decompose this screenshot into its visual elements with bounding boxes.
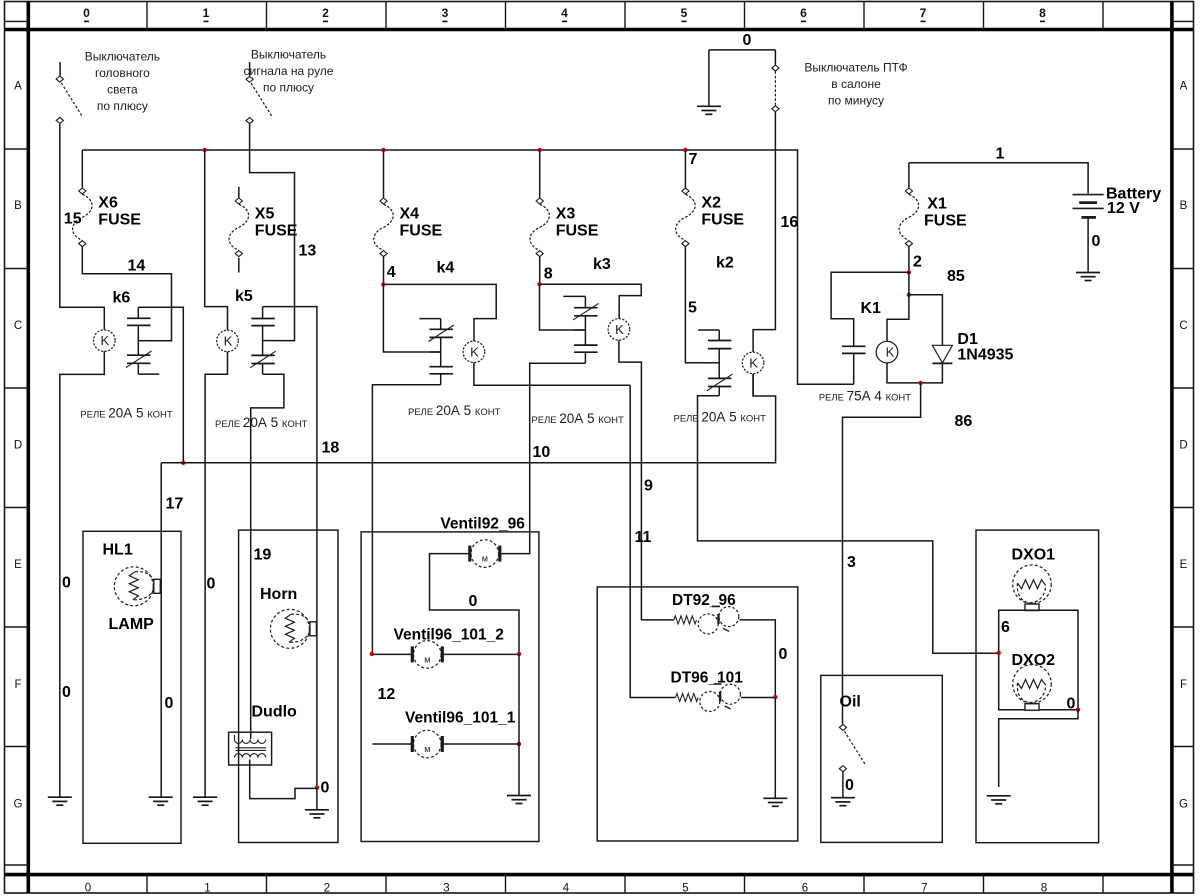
junction ventil right xyxy=(517,652,521,656)
svg-text:19: 19 xyxy=(254,547,272,564)
svg-text:4: 4 xyxy=(563,883,570,895)
motor Ventil96_101_1 xyxy=(414,730,442,758)
svg-text:F: F xyxy=(1180,679,1187,691)
svg-text:A: A xyxy=(14,81,22,93)
wire Ventil96_101_2 row xyxy=(372,653,519,655)
svg-text:1: 1 xyxy=(203,6,210,20)
lamp Horn xyxy=(270,609,309,648)
svg-text:по плюсу: по плюсу xyxy=(263,80,314,94)
svg-text:Dudlo: Dudlo xyxy=(252,704,298,721)
svg-text:м: м xyxy=(482,554,488,564)
svg-text:3: 3 xyxy=(442,6,449,20)
wire K1 contact feed xyxy=(831,272,909,346)
box Horn xyxy=(239,530,338,842)
svg-text:K: K xyxy=(749,355,758,370)
bottom band separator xyxy=(1102,875,1104,893)
bottom band separator xyxy=(624,875,626,893)
junction bus X4 xyxy=(381,148,385,152)
relay k5 coil xyxy=(217,330,239,352)
svg-text:6: 6 xyxy=(800,6,807,20)
wire k2 contact out net 3 xyxy=(698,396,999,653)
bottom band separator xyxy=(146,875,148,893)
junction K1 85 xyxy=(907,293,911,297)
svg-text:по минусу: по минусу xyxy=(828,93,884,107)
right band top notch xyxy=(1172,20,1194,22)
junction D bus xyxy=(181,461,185,465)
junction ventil left xyxy=(370,652,374,656)
svg-text:2: 2 xyxy=(322,6,329,20)
ground DT xyxy=(763,797,787,799)
svg-text:м: м xyxy=(424,654,430,664)
svg-text:FUSE: FUSE xyxy=(400,223,443,240)
fuse X6 xyxy=(79,188,86,194)
top band separator xyxy=(1102,2,1104,30)
relay k6 contact xyxy=(126,307,159,374)
ground top PTF xyxy=(697,105,721,107)
top band separator xyxy=(505,2,507,30)
svg-text:k5: k5 xyxy=(235,288,253,305)
wire DXO loop xyxy=(999,610,1078,710)
left band separator xyxy=(5,746,29,748)
wire k3 top to coil xyxy=(540,284,642,318)
relay k3 contact rotated xyxy=(563,296,598,363)
wire X2 from bus xyxy=(684,150,686,188)
ground left switch1 xyxy=(48,796,72,798)
svg-text:7: 7 xyxy=(920,6,927,20)
svg-text:9: 9 xyxy=(644,477,653,494)
wire net 0 top xyxy=(709,50,776,96)
svg-text:A: A xyxy=(1180,81,1188,93)
battery V1 xyxy=(1073,195,1104,218)
left band separator xyxy=(5,268,29,270)
svg-text:DXO2: DXO2 xyxy=(1012,652,1056,669)
wire k3 coil bottom to net9 xyxy=(619,340,642,620)
ground Oil xyxy=(831,797,855,799)
wire X1 to dot xyxy=(908,247,910,273)
wire X2 to k2 armature xyxy=(685,247,708,363)
wire DXO to ground xyxy=(999,710,1078,787)
svg-text:0: 0 xyxy=(321,780,330,797)
svg-text:Выключатель ПТФ: Выключатель ПТФ xyxy=(804,60,907,74)
motor Ventil92_96 xyxy=(471,540,499,568)
wire net 1 xyxy=(909,163,1088,194)
label switch 1 text xyxy=(85,49,160,113)
wire net 17 HL1 drop xyxy=(160,463,162,797)
top band separator xyxy=(983,2,985,30)
label switch PTF text xyxy=(804,60,907,107)
svg-text:сигнала на руле: сигнала на руле xyxy=(244,64,334,78)
svg-text:0: 0 xyxy=(83,6,90,20)
top band separator xyxy=(146,2,148,30)
wire battery minus xyxy=(1087,217,1089,271)
wire k4 contact to Ventil net 12 xyxy=(372,385,440,654)
svg-text:2: 2 xyxy=(324,883,330,895)
svg-text:0: 0 xyxy=(62,575,71,592)
junction k3 top xyxy=(537,282,541,286)
svg-text:B: B xyxy=(1180,200,1188,212)
svg-text:1: 1 xyxy=(204,883,210,895)
border frame thick verticals xyxy=(26,2,30,894)
top band separator xyxy=(266,2,268,30)
svg-text:Horn: Horn xyxy=(260,586,297,603)
svg-text:8: 8 xyxy=(1039,6,1046,20)
svg-text:8: 8 xyxy=(544,265,553,282)
svg-text:16: 16 xyxy=(781,214,799,231)
wire D1 feed xyxy=(909,295,943,346)
svg-text:3: 3 xyxy=(443,883,449,895)
bottom band separator xyxy=(266,875,268,893)
wire k5 coil bottom to ground run xyxy=(205,352,227,797)
top band separator xyxy=(385,2,387,30)
top band separator xyxy=(744,2,746,30)
svg-text:0: 0 xyxy=(165,695,174,712)
wire D1 bottom xyxy=(921,363,943,383)
box Oil xyxy=(821,675,943,842)
wire net 14 xyxy=(82,247,171,341)
svg-text:0: 0 xyxy=(62,684,71,701)
junction k4 top xyxy=(381,282,385,286)
left band separator xyxy=(5,387,29,389)
wire k4 coil bottom to net10 xyxy=(474,363,630,386)
fuse X2 xyxy=(682,188,689,194)
junction bus X3 xyxy=(538,148,542,152)
wire K1 coil feed xyxy=(887,295,909,342)
relay k6 coil xyxy=(94,330,116,352)
bottom band separator xyxy=(863,875,865,893)
box Ventil xyxy=(361,532,539,842)
ground battery xyxy=(1076,272,1100,274)
junction bus k5 xyxy=(203,148,207,152)
svg-text:85: 85 xyxy=(947,268,965,285)
wire net 11 drop xyxy=(629,385,631,653)
relay k4 contact rotated xyxy=(419,319,454,385)
box DXO xyxy=(976,530,1099,843)
svg-text:2: 2 xyxy=(913,254,922,271)
diode D1 xyxy=(932,345,952,363)
svg-text:0: 0 xyxy=(469,593,478,610)
svg-text:FUSE: FUSE xyxy=(255,223,298,240)
svg-text:k4: k4 xyxy=(437,260,455,277)
svg-text:1: 1 xyxy=(996,146,1005,163)
wire net 86 to Oil xyxy=(843,383,921,724)
right band separator xyxy=(1172,148,1194,150)
svg-text:FUSE: FUSE xyxy=(556,223,599,240)
switch HV2 сигнала на руле xyxy=(246,62,272,124)
motor DT96_101 xyxy=(700,692,720,712)
svg-text:X6: X6 xyxy=(98,195,118,212)
fuse X4 xyxy=(380,198,387,204)
svg-text:K: K xyxy=(470,344,479,359)
junction DXO feed xyxy=(997,651,1001,655)
bottom band separator xyxy=(983,875,985,893)
resistor DT92_96 xyxy=(674,616,697,624)
wire X3 to dot xyxy=(539,257,541,285)
svg-text:K: K xyxy=(886,345,895,360)
wire k3 fuse to armature xyxy=(540,284,586,330)
svg-text:по плюсу: по плюсу xyxy=(97,99,148,113)
lamp HL1 xyxy=(114,567,153,606)
left band separator xyxy=(5,864,29,866)
box HL1 xyxy=(83,531,181,843)
svg-text:X2: X2 xyxy=(701,195,721,212)
junction net 86 xyxy=(918,381,922,385)
svg-text:D: D xyxy=(14,440,22,452)
svg-text:м: м xyxy=(424,744,430,754)
svg-text:Ventil96_101_2: Ventil96_101_2 xyxy=(394,626,504,643)
wire Dudlo bottom to horn ground xyxy=(250,760,317,799)
wire bus to fuse X3 xyxy=(539,150,541,198)
svg-text:3: 3 xyxy=(847,554,856,571)
junction bus X2 xyxy=(683,148,687,152)
bottom band separator xyxy=(744,875,746,893)
svg-text:LAMP: LAMP xyxy=(109,616,155,633)
svg-text:6: 6 xyxy=(1001,619,1010,636)
svg-text:E: E xyxy=(1180,559,1188,571)
svg-text:Oil: Oil xyxy=(840,693,861,710)
left band separator xyxy=(5,626,29,628)
svg-text:14: 14 xyxy=(128,258,146,275)
wire k4 top to coil xyxy=(383,284,496,341)
wire PTF switch to k2 coil xyxy=(753,112,775,352)
svg-text:X1: X1 xyxy=(927,196,947,213)
svg-text:5: 5 xyxy=(681,6,688,20)
relay k4 coil xyxy=(463,341,485,363)
relay k2 coil xyxy=(742,352,764,374)
wire bus to fuse X4 xyxy=(383,150,385,198)
svg-text:в салоне: в салоне xyxy=(831,77,881,91)
wire k5 NC to net 19 xyxy=(251,374,284,739)
wire switch2 to k5 armature net 13 xyxy=(250,124,295,341)
svg-text:5: 5 xyxy=(688,300,697,317)
svg-text:12: 12 xyxy=(378,686,396,703)
right band separator xyxy=(1172,387,1194,389)
relay K1 coil xyxy=(876,341,898,363)
svg-text:10: 10 xyxy=(533,444,551,461)
svg-text:K: K xyxy=(615,322,624,337)
wire k5 coil feed xyxy=(205,150,228,330)
right band separator xyxy=(1172,864,1194,866)
relay K1 contact xyxy=(842,346,866,384)
svg-text:X5: X5 xyxy=(255,206,275,223)
fuse X5 stub top xyxy=(238,187,240,198)
bottom band separator xyxy=(505,875,507,893)
svg-text:G: G xyxy=(14,799,23,811)
junction DXO out xyxy=(1076,708,1080,712)
svg-text:E: E xyxy=(14,559,22,571)
svg-text:D: D xyxy=(1179,440,1187,452)
motor DT92_96 xyxy=(698,614,718,634)
switch Oil xyxy=(839,724,846,730)
svg-text:G: G xyxy=(1179,799,1188,811)
svg-text:7: 7 xyxy=(689,151,698,168)
svg-text:Ventil96_101_1: Ventil96_101_1 xyxy=(405,710,516,727)
svg-text:4: 4 xyxy=(561,6,568,20)
svg-text:K: K xyxy=(224,333,233,348)
svg-text:5: 5 xyxy=(682,883,688,895)
wire switch1 to k6 coil xyxy=(60,123,105,329)
label switch 2 text xyxy=(244,47,334,94)
svg-text:8: 8 xyxy=(1041,883,1047,895)
svg-text:0: 0 xyxy=(779,646,788,663)
left band top notch xyxy=(5,20,29,22)
wire main bus B-row and net16 drop xyxy=(82,150,853,384)
svg-text:света: света xyxy=(107,82,138,96)
left band separator xyxy=(5,507,29,509)
svg-text:12 V: 12 V xyxy=(1107,200,1140,217)
svg-text:k6: k6 xyxy=(113,289,131,306)
svg-text:18: 18 xyxy=(322,439,340,456)
svg-text:0: 0 xyxy=(845,777,854,794)
svg-text:X3: X3 xyxy=(556,206,576,223)
switch PTF xyxy=(772,50,779,112)
svg-text:4: 4 xyxy=(387,264,396,281)
wire K1 coil bottom xyxy=(887,363,921,383)
svg-text:C: C xyxy=(1179,320,1187,332)
svg-text:X4: X4 xyxy=(400,206,420,223)
wire k2 coil bottom to bus xyxy=(752,374,754,396)
top band separator xyxy=(863,2,865,30)
svg-text:HL1: HL1 xyxy=(103,541,133,558)
junction DT xyxy=(773,695,777,699)
svg-text:1N4935: 1N4935 xyxy=(957,346,1013,363)
lamp DXO2 xyxy=(1013,665,1052,704)
svg-text:0: 0 xyxy=(1092,233,1101,250)
right band separator xyxy=(1172,507,1194,509)
svg-text:0: 0 xyxy=(1067,695,1076,712)
svg-text:DT92_96: DT92_96 xyxy=(672,592,736,609)
right band separator xyxy=(1172,626,1194,628)
wire oil switch to ground xyxy=(842,772,844,798)
svg-text:6: 6 xyxy=(802,883,808,895)
svg-text:F: F xyxy=(14,679,21,691)
svg-text:15: 15 xyxy=(64,210,82,227)
wire k6 contact top to D bus xyxy=(138,307,183,463)
svg-text:K1: K1 xyxy=(861,300,882,317)
wire X4 to dot xyxy=(383,257,385,285)
wire DT92_96 row left xyxy=(641,619,674,621)
wire D bus xyxy=(161,374,775,463)
fuse X5 xyxy=(235,198,242,204)
box DT xyxy=(597,587,798,841)
wire DT96_101 row right xyxy=(741,697,775,699)
svg-text:DXO1: DXO1 xyxy=(1012,547,1056,564)
svg-text:B: B xyxy=(14,200,22,212)
right band separator xyxy=(1172,746,1194,748)
svg-text:17: 17 xyxy=(166,496,184,513)
wire k6 coil bottom to ground run xyxy=(60,351,105,796)
lamp DXO1 xyxy=(1013,565,1052,604)
svg-text:k2: k2 xyxy=(716,255,734,272)
junction horn ground xyxy=(315,786,319,790)
svg-text:Ventil92_96: Ventil92_96 xyxy=(440,515,525,532)
svg-text:головного: головного xyxy=(95,66,150,80)
junction ventil right row3 xyxy=(517,742,521,746)
relay k2 contact mirrored xyxy=(698,330,732,396)
svg-text:FUSE: FUSE xyxy=(701,212,744,229)
ground ventil xyxy=(507,795,531,797)
svg-text:0: 0 xyxy=(743,32,752,49)
wire Ventil92_96 left loop xyxy=(430,554,520,654)
fuse X5 stub bottom xyxy=(238,258,240,273)
svg-text:FUSE: FUSE xyxy=(924,213,967,230)
transformer Dudlo xyxy=(229,732,272,765)
wire K1 dots link xyxy=(908,272,910,295)
fuse X1 stub xyxy=(908,163,910,188)
svg-text:11: 11 xyxy=(635,529,652,546)
svg-text:7: 7 xyxy=(921,883,927,895)
top band separator xyxy=(624,2,626,30)
svg-text:13: 13 xyxy=(299,243,317,260)
border frame thick horizontals xyxy=(5,28,1194,32)
bottom band separator xyxy=(385,875,387,893)
fuse X1 xyxy=(905,188,912,194)
wire Ventil96_101_1 row xyxy=(372,654,519,773)
wire DT ground drop xyxy=(774,697,776,797)
wire k4 fuse to armature xyxy=(383,284,440,352)
svg-text:FUSE: FUSE xyxy=(98,212,141,229)
svg-text:0: 0 xyxy=(207,576,216,593)
ground HL1 xyxy=(149,796,173,798)
right band separator xyxy=(1172,268,1194,270)
svg-text:86: 86 xyxy=(955,413,973,430)
fuse X3 xyxy=(536,198,543,204)
svg-text:Выключатель: Выключатель xyxy=(251,47,326,61)
ground DXO xyxy=(987,795,1011,797)
wire DT92_96 row right xyxy=(740,620,776,697)
svg-text:K: K xyxy=(100,333,109,348)
ground k5 net0 xyxy=(193,796,217,798)
relay k3 coil xyxy=(608,319,630,341)
svg-text:k3: k3 xyxy=(593,256,611,273)
wire DT96_101 row left xyxy=(630,653,675,698)
wire k3 contact to net10 Ventil xyxy=(501,363,586,553)
wire k5 contact top to horn lamp and ground xyxy=(263,307,317,788)
resistor DT96_101 xyxy=(676,694,699,702)
left band separator xyxy=(5,148,29,150)
svg-text:C: C xyxy=(14,320,22,332)
wire bus corner to fuse X6 xyxy=(81,150,83,188)
svg-text:Выключатель: Выключатель xyxy=(85,49,160,63)
relay k5 contact xyxy=(250,307,275,375)
svg-text:DT96_101: DT96_101 xyxy=(671,670,744,687)
svg-text:0: 0 xyxy=(85,883,91,895)
junction K1 top xyxy=(907,270,911,274)
motor Ventil96_101_2 xyxy=(414,641,442,669)
ground horn xyxy=(305,809,329,811)
switch HV1 головного света xyxy=(56,62,82,123)
